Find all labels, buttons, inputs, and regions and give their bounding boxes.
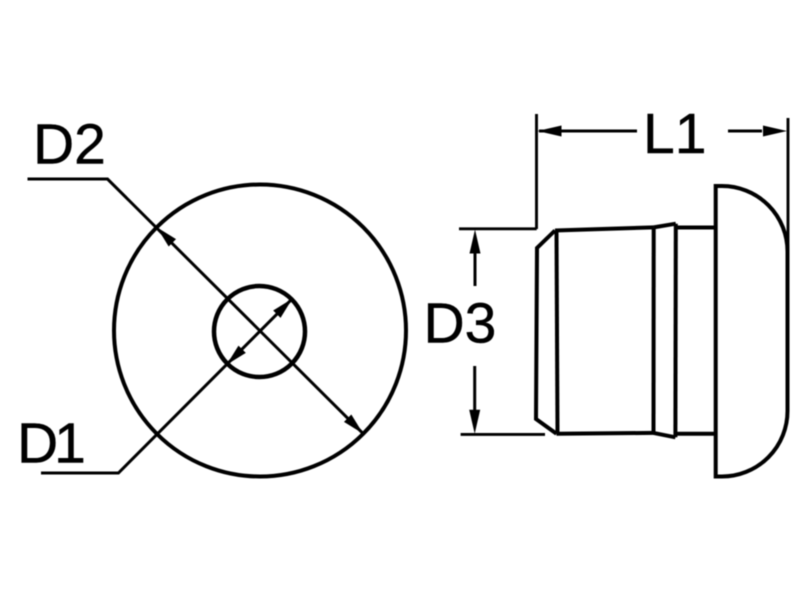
arrowhead D1 NE bbox=[273, 299, 292, 318]
rib right edge bbox=[673, 224, 677, 438]
svg-text:D3: D3 bbox=[424, 292, 497, 356]
body top edge bbox=[555, 227, 654, 230]
extension line L1 right bbox=[787, 118, 790, 253]
leader and dimension line D2 bbox=[28, 179, 364, 434]
svg-text:L1: L1 bbox=[643, 102, 706, 166]
plug body left profile with chamfers (side view) bbox=[536, 231, 557, 434]
outer circle (front view outside diameter D2) bbox=[114, 185, 406, 477]
svg-text:D1: D1 bbox=[17, 412, 83, 476]
dimension line L1 right segment bbox=[728, 130, 762, 133]
chamfer edge line bbox=[557, 231, 558, 434]
neck bottom edge bbox=[675, 432, 715, 436]
neck top edge bbox=[676, 226, 716, 230]
rib top edge bbox=[654, 224, 676, 228]
dome cap outline bbox=[716, 186, 788, 477]
arrowhead D3 up bbox=[470, 230, 481, 254]
dimension line D3 lower segment bbox=[473, 366, 476, 411]
dimension line D3 upper segment bbox=[474, 253, 477, 287]
body bottom edge bbox=[557, 431, 654, 436]
arrowhead L1 right bbox=[763, 126, 787, 137]
arrowhead D2 SE bbox=[344, 414, 363, 433]
extension line L1 left bbox=[535, 114, 538, 229]
arrowhead D1 SW bbox=[227, 346, 246, 365]
svg-text:D2: D2 bbox=[33, 113, 106, 177]
rib bottom edge bbox=[654, 433, 676, 437]
leader and dimension line D1 bbox=[41, 299, 292, 473]
extension line D3 top bbox=[459, 227, 537, 230]
inner circle (front view hole diameter D1) bbox=[214, 286, 305, 377]
dimension line L1 left segment bbox=[539, 130, 637, 133]
extension line D3 bottom bbox=[461, 433, 545, 436]
arrowhead L1 left bbox=[538, 126, 562, 137]
rib left edge bbox=[652, 227, 656, 433]
arrowhead D2 NW bbox=[157, 227, 176, 246]
arrowhead D3 down bbox=[469, 410, 480, 434]
